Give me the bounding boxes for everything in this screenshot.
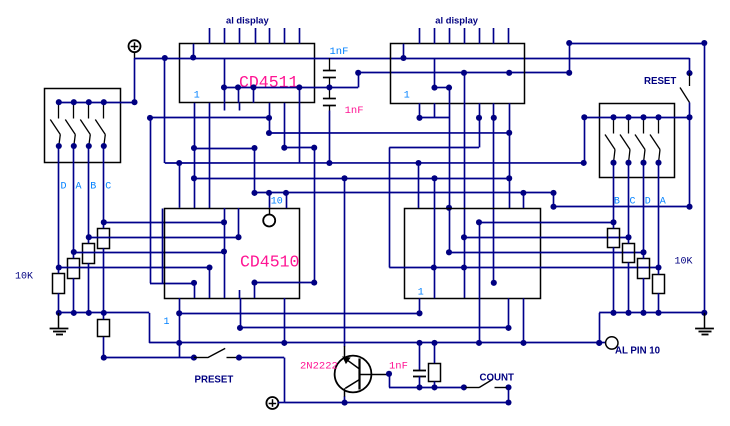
junction U2 pin6: [461, 70, 467, 76]
junction +V / DIP rail: [131, 99, 137, 105]
Q1 emitter: [346, 359, 360, 369]
wire left DIP S2 bottom column: [73, 146, 75, 252]
wire x150 drop: [150, 118, 152, 283]
wire bus drop to AL: [599, 313, 601, 343]
junction rail / x165 drop: [162, 55, 168, 61]
junction U2 pin7: [506, 70, 512, 76]
bus y178: [194, 178, 509, 180]
resistor R3 10K: [83, 244, 95, 264]
wire x179 lower: [179, 298, 181, 358]
wire x569 drop: [569, 43, 571, 73]
ground bus right: [599, 312, 704, 314]
svg-text:1: 1: [404, 91, 410, 102]
U1 top pin 7: [299, 28, 301, 44]
U2 top pin 5: [479, 28, 481, 44]
U2 internal link: [435, 87, 450, 89]
power +V symbol top-left: [129, 40, 141, 52]
ground symbol left: [58, 313, 60, 328]
svg-text:CD4511: CD4511: [239, 73, 299, 92]
svg-text:1nF: 1nF: [389, 360, 408, 372]
wire RESET to DIP rail: [689, 103, 691, 207]
wire right DIP S5 bottom column: [613, 163, 615, 223]
wire x553 drop: [553, 193, 555, 207]
svg-text:1: 1: [164, 317, 170, 328]
wire 269 column: [269, 103, 271, 133]
wire x165 drop: [164, 58, 166, 163]
Q1 base bar: [358, 359, 360, 390]
wire y207 link: [554, 206, 690, 208]
svg-text:D: D: [645, 196, 651, 207]
U3 internal column 238: [238, 208, 240, 237]
resistor R6 10K: [608, 229, 620, 248]
svg-text:COUNT: COUNT: [480, 373, 515, 384]
wire right DIP tops rail: [584, 117, 689, 119]
svg-text:2N2222: 2N2222: [300, 360, 338, 372]
wire 449 column: [449, 103, 451, 252]
IC U2 CD4511 box: [391, 44, 525, 104]
svg-text:al display: al display: [435, 15, 479, 26]
svg-text:1: 1: [418, 287, 424, 298]
bus y328: [240, 327, 509, 329]
bus y133: [269, 132, 509, 134]
U3 bottom pin 284: [284, 298, 286, 343]
wire PRESET to +V: [239, 357, 284, 359]
wire blank-U2 horizontal: [358, 72, 569, 74]
wire right DIP S8 bottom column: [658, 163, 660, 268]
svg-text:1nF: 1nF: [345, 105, 364, 117]
svg-text:AL PIN 10: AL PIN 10: [615, 345, 660, 356]
wire from bottom +V to rail: [278, 402, 284, 404]
left DIP switch S3 contacts and blade: [88, 102, 90, 118]
Q1 base lead: [360, 374, 390, 376]
U2 top pin 4: [464, 28, 466, 44]
U3 bottom pin 240: [240, 298, 242, 328]
transistor Q1 circle: [335, 356, 372, 393]
IC U1 CD4511 box: [180, 44, 315, 103]
U4 internal column 479: [479, 222, 481, 298]
svg-text:PRESET: PRESET: [195, 375, 234, 386]
ground bus left: [59, 312, 149, 314]
bus y193: [255, 192, 554, 194]
resistor R4 10K: [98, 229, 110, 249]
wire y43 top right: [569, 43, 704, 45]
svg-text:1: 1: [194, 91, 200, 102]
right rail vertical: [704, 43, 706, 313]
U2 top pin 7: [508, 28, 510, 44]
resistor R9 10K: [653, 275, 665, 294]
svg-text:C: C: [630, 196, 636, 207]
svg-text:al display: al display: [226, 15, 270, 26]
AL PIN 10 node circle: [599, 342, 605, 344]
U4 bottom pin 419: [419, 298, 421, 313]
right DIP switch S6 contacts and blade: [628, 117, 630, 133]
bus y313: [179, 313, 419, 315]
U3 internal column 194: [194, 283, 196, 298]
bus y117 left: [150, 117, 269, 119]
wire 314 column: [314, 148, 316, 283]
left DIP switch S2 contacts and blade: [73, 102, 75, 118]
left DIP switch box: [45, 89, 121, 163]
U2 pin1 wire jog: [419, 103, 421, 118]
svg-text:D: D: [61, 182, 67, 193]
wire x179 upper pin: [179, 163, 181, 208]
U1 top pin 5: [269, 28, 271, 44]
U1 top pin 1: [209, 28, 211, 44]
wire right DIP S7 bottom column: [643, 163, 645, 253]
wire rail to RESET: [689, 58, 691, 73]
wire net C to counter: [59, 267, 210, 269]
U4 bottom pin 479: [479, 298, 481, 343]
U2 top pin 1: [419, 28, 421, 44]
left DIP switch S4 contacts and blade: [103, 102, 105, 118]
U3 top pin from y193: [286, 193, 288, 208]
svg-text:10: 10: [271, 196, 283, 207]
U2 top pin 3: [449, 28, 451, 44]
bus y163: [165, 162, 584, 164]
svg-text:B: B: [614, 196, 620, 207]
U2 Vdd stub: [403, 44, 405, 58]
capacitor C1 1nF: [329, 58, 331, 70]
PRESET switch blade: [194, 357, 208, 359]
wire U4 out4: [389, 267, 658, 269]
resistor R2 10K: [68, 259, 80, 279]
wire R5 to PRESET: [104, 357, 194, 359]
wire y283 link: [150, 283, 194, 285]
wire y147 jog: [389, 147, 479, 149]
U2 pin6 wire: [464, 73, 466, 298]
right DIP switch S5 contacts and blade: [613, 117, 615, 133]
resistor R10: [429, 364, 441, 382]
wire U1 pin to U3: [194, 103, 196, 208]
bus y343 long: [149, 342, 599, 344]
U3 pin10 circle: [269, 193, 271, 208]
U1 top pin 3: [239, 28, 241, 44]
wire U4 out2: [464, 237, 629, 239]
wire net B to counter: [74, 252, 224, 254]
U1 blank wire: [224, 87, 358, 89]
U1 Vdd stub: [193, 44, 195, 58]
U2 pin8 wire: [509, 103, 511, 208]
Q1 collector lead down: [344, 388, 346, 397]
resistor R8 10K: [638, 259, 650, 279]
resistor R5 10K: [98, 320, 110, 337]
right DIP switch S8 contacts and blade: [658, 117, 660, 133]
right DIP switch S7 contacts and blade: [643, 117, 645, 133]
wire left DIP S4 bottom column: [103, 146, 105, 222]
svg-text:A: A: [76, 182, 82, 193]
junction C1-C2 / blank wire: [326, 84, 332, 90]
U3 internal column 209: [209, 268, 211, 299]
COUNT switch blade: [461, 384, 467, 390]
wire U1 pin to U3 b: [209, 103, 211, 208]
U2 top pin 2: [434, 28, 436, 44]
left DIP switch S1 contacts and blade: [58, 102, 60, 118]
capacitor C2 1nF: [323, 98, 336, 100]
resistor R7 10K: [623, 244, 635, 263]
IC U4 CD4510 box: [405, 209, 541, 299]
IC U3 CD4510 box: [165, 209, 300, 299]
U4 bottom pin 508: [508, 298, 510, 328]
+V rail horizontal: [135, 58, 690, 60]
capacitor C3 1nF: [419, 343, 421, 371]
U2 internal column a: [434, 58, 436, 88]
wire U4 out3: [449, 252, 644, 254]
U4 bottom pin 524: [523, 298, 525, 343]
wire y148 link: [194, 148, 255, 150]
U2 top pin 6: [493, 28, 495, 44]
svg-text:B: B: [90, 182, 96, 193]
wire left DIP S1 bottom column: [58, 146, 60, 268]
wire base node: [389, 374, 391, 387]
wire 254 drop: [254, 148, 256, 193]
ground symbol right: [704, 313, 706, 329]
U2 pin column b: [449, 88, 451, 104]
U1 top pin 6: [284, 28, 286, 44]
svg-text:1nF: 1nF: [330, 46, 349, 58]
U1 top pin 4: [255, 28, 257, 44]
U1 bottom pin stubs: [224, 103, 226, 111]
power +V symbol bottom: [266, 397, 278, 409]
wire left DIP S3 bottom column: [88, 146, 90, 237]
wire x162 drop along U3 edge: [162, 209, 164, 284]
U4 top pin 434: [434, 178, 436, 298]
U2 pin stub 434: [434, 103, 436, 118]
U3 internal stub 239: [239, 290, 241, 298]
wire right DIP S6 bottom column: [628, 163, 630, 238]
wire C2 to LT bus: [329, 111, 331, 164]
U4 top pin 523: [523, 193, 525, 208]
U2 pin5 wire: [479, 103, 481, 147]
wire U1 pin 299 drop: [299, 103, 301, 163]
+V bottom rail: [284, 402, 508, 404]
svg-text:RESET: RESET: [644, 76, 676, 87]
wire left DIP tops rail: [59, 102, 135, 104]
Q1 emitter lead up: [344, 178, 346, 346]
wire jog ground bus: [149, 313, 151, 343]
U1 pin columns to bottom edge: [238, 87, 240, 102]
RESET switch blade: [689, 73, 691, 86]
wire net A to counter: [89, 237, 239, 239]
U2 pin7 wire through U4: [493, 103, 495, 283]
svg-text:10K: 10K: [675, 257, 693, 268]
wire from +V down to DIP rail: [134, 58, 136, 102]
svg-text:CD4510: CD4510: [240, 253, 299, 272]
wire x584 drop: [584, 117, 586, 163]
svg-text:10K: 10K: [15, 272, 33, 283]
wire net D to counter: [104, 222, 224, 224]
U4 top pin 418: [418, 163, 420, 208]
Q1 collector: [345, 380, 359, 389]
svg-text:A: A: [660, 196, 666, 207]
U1 internal column: [224, 58, 226, 103]
U3 internal wire 282: [255, 282, 315, 284]
U3 internal column 224: [224, 208, 226, 298]
U1 top pin 2: [224, 28, 226, 44]
wire U1 pin 284 jog: [284, 103, 286, 148]
COUNT to rail wire: [508, 387, 510, 402]
wire U4 out1: [479, 222, 614, 224]
svg-text:C: C: [105, 182, 111, 193]
wire jog blank to U2: [358, 73, 360, 88]
right DIP switch box: [600, 104, 675, 178]
resistor R1 10K: [53, 274, 65, 294]
